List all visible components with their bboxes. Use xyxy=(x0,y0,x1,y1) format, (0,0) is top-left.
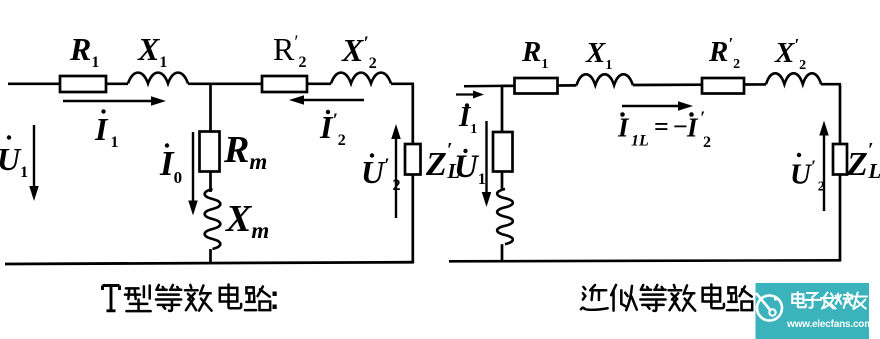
svg-text:U′2: U′2 xyxy=(790,157,825,195)
svg-text:Z′L: Z′L xyxy=(846,139,880,183)
svg-text:I1: I1 xyxy=(94,111,118,151)
svg-text:R1: R1 xyxy=(69,31,99,71)
svg-text:I0: I0 xyxy=(159,144,182,187)
svg-text:=: = xyxy=(654,112,669,141)
svg-text:X1: X1 xyxy=(137,31,167,71)
svg-text:I′2: I′2 xyxy=(319,109,346,149)
svg-text:R′2: R′2 xyxy=(708,34,740,72)
svg-text:R′2: R′2 xyxy=(273,31,307,71)
svg-text:X1: X1 xyxy=(585,37,612,73)
svg-text:I: I xyxy=(686,113,699,143)
svg-text:U1: U1 xyxy=(0,141,28,181)
svg-text:2: 2 xyxy=(703,134,711,151)
svg-text:www.elecfans.com: www.elecfans.com xyxy=(786,319,873,330)
svg-text:′: ′ xyxy=(700,108,705,128)
svg-text:U1: U1 xyxy=(454,149,486,188)
svg-text:Rm: Rm xyxy=(223,129,267,174)
svg-text:X′2: X′2 xyxy=(341,32,377,72)
svg-text:R1: R1 xyxy=(521,36,548,72)
svg-text:1L: 1L xyxy=(631,133,649,150)
svg-text:U′2: U′2 xyxy=(361,154,400,194)
svg-text:−: − xyxy=(673,112,688,141)
svg-text:Xm: Xm xyxy=(225,198,269,243)
svg-text:I: I xyxy=(617,113,630,143)
svg-text:X′2: X′2 xyxy=(774,35,806,73)
